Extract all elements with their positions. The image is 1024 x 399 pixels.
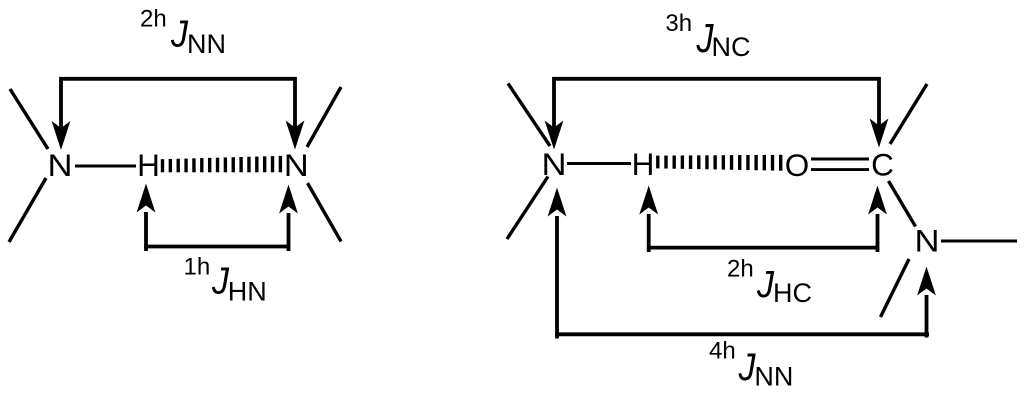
bond N3 substituent down-left: [507, 177, 548, 240]
svg-text:2h: 2h: [140, 6, 167, 33]
svg-text:H: H: [137, 147, 160, 183]
double bond O=C: [811, 158, 869, 161]
svg-text:C: C: [871, 147, 894, 183]
svg-text:N: N: [284, 147, 309, 183]
svg-text:NC: NC: [712, 32, 751, 62]
bond N1-H1: [75, 165, 136, 168]
hydrogen bond H1...N2 (hashed): [163, 156, 281, 172]
bond N4 substituent down-left: [881, 259, 910, 317]
svg-text:N: N: [542, 146, 567, 182]
svg-text:H: H: [632, 146, 655, 182]
svg-text:HN: HN: [228, 276, 267, 306]
bond C substituent up-right: [890, 84, 927, 144]
bond N4 substituent right: [941, 240, 1017, 243]
bond N1 substituent down-left: [9, 178, 46, 242]
right molecule: N-H...O=C amide hydrogen bond: [507, 10, 1017, 391]
svg-text:N: N: [48, 147, 73, 183]
svg-text:N: N: [915, 223, 940, 259]
svg-text:NN: NN: [187, 29, 226, 59]
2hJNN coupling bracket (top): [61, 79, 295, 133]
bond N2 substituent up-right: [307, 87, 341, 147]
4hJNN coupling bracket (bottom): [557, 216, 929, 334]
bond N3-H2: [567, 162, 631, 165]
bond C-N4: [889, 181, 916, 227]
1hJHN coupling bracket (bottom): [146, 212, 289, 247]
svg-text:3h: 3h: [665, 10, 692, 37]
svg-text:J: J: [738, 346, 756, 389]
bond N2 substituent down-right: [308, 183, 342, 242]
hydrogen bond H2...O (hashed): [658, 155, 781, 171]
svg-text:4h: 4h: [709, 337, 736, 364]
bond N1 substituent up-left: [10, 89, 48, 149]
3hJNC coupling bracket (top): [554, 79, 879, 133]
bond N3 substituent up-left: [508, 84, 550, 147]
svg-text:1h: 1h: [184, 254, 211, 281]
svg-text:HC: HC: [773, 278, 812, 308]
2hJHC coupling bracket (middle): [649, 214, 878, 248]
left molecule: N-H...N hydrogen bond: [9, 6, 341, 307]
svg-text:2h: 2h: [727, 255, 754, 282]
svg-text:O: O: [785, 147, 810, 183]
svg-text:NN: NN: [754, 361, 793, 391]
